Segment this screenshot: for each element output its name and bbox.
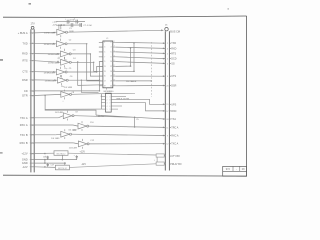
svg-text:CD: CD bbox=[24, 89, 28, 93]
svg-text:3: 3 bbox=[104, 47, 105, 49]
wire J1 row 134.8 to gate U13 bbox=[34, 134, 56, 136]
ic U1 right pin 4 stub bbox=[113, 46, 116, 48]
ic U1 right pin 10 stub bbox=[113, 61, 116, 63]
wire IC pin row 66.4 to tie bbox=[116, 65, 131, 67]
svg-text:13: 13 bbox=[104, 71, 106, 73]
svg-text:17: 17 bbox=[32, 118, 34, 120]
wire J1 row 53.6 to gate U4 bbox=[34, 53, 60, 55]
J1 pin g stub bbox=[30, 159, 34, 161]
wire GND row 1 bbox=[34, 159, 77, 161]
svg-text:MC78L12: MC78L12 bbox=[57, 153, 67, 155]
P2 pin 2 stub bbox=[169, 42, 171, 44]
capacitor C17 at VR2 input bbox=[47, 163, 49, 167]
P2 pin 15 stub bbox=[169, 103, 171, 105]
svg-text:8: 8 bbox=[111, 56, 112, 58]
fold mark left lower bbox=[0, 152, 3, 153]
svg-text:17V: 17V bbox=[30, 22, 35, 25]
ic U2 right pin 3 wire to P2 row 110.9 bbox=[111, 103, 165, 111]
svg-text:DTR: DTR bbox=[22, 94, 27, 98]
svg-text:TXC B: TXC B bbox=[20, 133, 28, 137]
wire gate U13 output bbox=[72, 134, 166, 135]
junction dots on -12V rail bbox=[61, 24, 63, 26]
svg-text:21: 21 bbox=[32, 135, 34, 137]
J1 pin g stub bbox=[30, 166, 34, 168]
svg-text:1/4 1489: 1/4 1489 bbox=[51, 138, 60, 140]
wire branch x81.4 stub bbox=[81, 80, 98, 92]
wire IC pin row 80.9 to cable boundary bbox=[116, 80, 151, 82]
svg-text:3: 3 bbox=[167, 48, 168, 50]
P2 pin 6 stub bbox=[169, 62, 171, 64]
wire gate U7 output to IC pin y61.6 bbox=[68, 62, 103, 81]
J1 pin 17 stub bbox=[30, 117, 34, 119]
gate U4 1/4 MC1489 bbox=[61, 51, 70, 57]
wire VR1 ground leg bbox=[61, 155, 63, 159]
gate U7 1/4 MC1489 bbox=[58, 77, 67, 83]
wire gate U8 output continuation bbox=[101, 93, 135, 95]
ic U2 right pin 5 stub bbox=[111, 108, 118, 110]
svg-text:DSR: DSR bbox=[171, 85, 176, 88]
svg-text:DCD: DCD bbox=[171, 58, 176, 61]
J1 pin 23 stub bbox=[30, 142, 34, 144]
svg-text:1: 1 bbox=[32, 33, 33, 35]
long wire U2 region to P2 row 119 bbox=[96, 115, 165, 119]
svg-text:+ BUS A: + BUS A bbox=[18, 31, 28, 35]
cable boundary dashed line bbox=[150, 42, 152, 97]
P2 pin 8 stub bbox=[169, 75, 171, 77]
wire J1 row 79.9 to gate U7 bbox=[34, 79, 57, 81]
svg-text:TXA: TXA bbox=[171, 118, 176, 121]
svg-text:C7 4.7uF: C7 4.7uF bbox=[83, 25, 92, 27]
wire J1 row 43.3 to gate U3 bbox=[34, 42, 56, 45]
svg-text:2: 2 bbox=[167, 43, 168, 45]
svg-text:1/4 MC1489: 1/4 MC1489 bbox=[44, 72, 56, 74]
wire VR2 ground leg bbox=[64, 163, 66, 165]
svg-text:RTS: RTS bbox=[171, 52, 176, 55]
svg-text:30p: 30p bbox=[64, 68, 67, 70]
svg-text:4: 4 bbox=[114, 46, 115, 48]
svg-text:5: 5 bbox=[167, 59, 168, 61]
voltage regulator VR1 body bbox=[54, 151, 68, 156]
wire IC pin row 71.3 to tie bbox=[116, 70, 134, 72]
ic U2 left pin 3 stub bbox=[101, 102, 105, 104]
svg-text:18: 18 bbox=[110, 81, 112, 83]
svg-text:15: 15 bbox=[32, 95, 34, 97]
svg-text:14: 14 bbox=[110, 71, 112, 73]
svg-text:5: 5 bbox=[107, 109, 108, 111]
svg-text:7: 7 bbox=[109, 103, 110, 105]
svg-text:C16: C16 bbox=[43, 156, 46, 158]
svg-text:8: 8 bbox=[114, 55, 115, 57]
ic U1 body bbox=[103, 41, 113, 88]
P2 pin 4 stub bbox=[169, 52, 171, 54]
svg-text:1/4 1488: 1/4 1488 bbox=[55, 112, 64, 114]
svg-text:RTS: RTS bbox=[22, 59, 27, 63]
svg-text:RXC A: RXC A bbox=[171, 135, 179, 138]
svg-text:CTS: CTS bbox=[171, 75, 176, 78]
gate U6 1/4 MC1489 bbox=[56, 69, 65, 75]
svg-text:2: 2 bbox=[107, 99, 108, 101]
svg-text:RXD: RXD bbox=[171, 110, 176, 113]
svg-text:12: 12 bbox=[113, 65, 115, 67]
svg-text:2: 2 bbox=[111, 42, 112, 44]
svg-text:6: 6 bbox=[114, 50, 115, 52]
wire stub IC pin y51.9 bbox=[99, 51, 103, 53]
gate U13 1/4 1489 bbox=[61, 131, 70, 137]
P2 pin 11 stub bbox=[169, 126, 171, 128]
svg-text:1: 1 bbox=[107, 96, 108, 98]
J1 pin 13 stub bbox=[30, 90, 34, 92]
svg-text:TXD: TXD bbox=[22, 41, 27, 45]
wire IC pin row 85.8 to P2 DSR bbox=[116, 85, 165, 87]
svg-text:24: 24 bbox=[166, 119, 168, 121]
wire IC pin row 76.1 to P2 CTS bbox=[116, 75, 165, 77]
wire CD row to ladder bbox=[34, 90, 99, 92]
wire J1 row 142.9 to gate U14 bbox=[34, 142, 73, 144]
connector P2 top pin circle BUS CM bbox=[165, 28, 168, 31]
svg-text:1/4 MC1489: 1/4 MC1489 bbox=[44, 44, 56, 46]
ic U1 left pin 5 stub bbox=[99, 51, 103, 53]
ic U1 bottom stub bbox=[106, 88, 108, 90]
wire ladder x99.5 extension to CD row bbox=[99, 80, 101, 91]
svg-text:5: 5 bbox=[109, 109, 110, 111]
ic U1 left pin 15 stub bbox=[99, 75, 103, 77]
wire VR1 out +12V to P2 box bbox=[68, 153, 156, 155]
P2 pin 5 stub bbox=[169, 58, 171, 60]
svg-text:GND: GND bbox=[22, 161, 28, 165]
gate U11 power stubs bbox=[66, 111, 68, 113]
wire -12V in to VR2 bbox=[34, 166, 55, 169]
wire vertical tie x134 bbox=[133, 43, 135, 71]
svg-text:RXD: RXD bbox=[22, 52, 28, 56]
fold mark left upper bbox=[0, 59, 3, 60]
title block cell divider 1 bbox=[232, 166, 234, 171]
registration mark top bbox=[29, 3, 32, 5]
wire gate U11 output bbox=[74, 116, 135, 118]
ic U1 right pin 12 stub bbox=[113, 65, 116, 67]
capacitor C6 plates bbox=[66, 20, 68, 24]
svg-text:6: 6 bbox=[109, 106, 110, 108]
ic U2 left pin 1 stub bbox=[101, 95, 105, 97]
wire IC pin row 47.1 to P2 row 48.4 bbox=[116, 47, 165, 48]
svg-text:1/4 1489: 1/4 1489 bbox=[64, 87, 73, 89]
svg-text:1/4 1489: 1/4 1489 bbox=[69, 148, 78, 150]
wire IC pin row 42.3 to P2 row 43.2 bbox=[116, 41, 165, 44]
svg-text:9: 9 bbox=[167, 135, 168, 137]
wire J1 row 71.7 to gate U6 bbox=[34, 71, 56, 73]
wire gate U8 output to U2 bbox=[72, 93, 102, 96]
svg-text:RXD: RXD bbox=[171, 47, 176, 50]
svg-text:12: 12 bbox=[166, 144, 168, 146]
wire stub IC pin y42.3 bbox=[99, 41, 103, 43]
svg-text:TXD: TXD bbox=[171, 42, 176, 45]
gate U14 1/4 1489 bbox=[78, 141, 87, 147]
wire gate U2 stub to -12V rail bbox=[60, 25, 62, 29]
svg-text:6: 6 bbox=[111, 52, 112, 54]
svg-text:3: 3 bbox=[32, 43, 33, 45]
svg-text:972: 972 bbox=[226, 168, 231, 171]
svg-text:TXC A: TXC A bbox=[20, 116, 28, 120]
P2 pin 9 stub bbox=[169, 135, 171, 137]
border frame top edge bbox=[3, 16, 247, 18]
P2 pin 17 stub bbox=[169, 110, 171, 112]
svg-text:1/4 MC1489: 1/4 MC1489 bbox=[45, 81, 57, 83]
svg-text:MC79L12: MC79L12 bbox=[58, 168, 68, 170]
ic U1 right pin 2 stub bbox=[113, 41, 116, 43]
ic U2 left tie bar bbox=[100, 96, 102, 109]
svg-text:18: 18 bbox=[113, 79, 115, 81]
connector J1 body bbox=[30, 29, 32, 172]
svg-text:2: 2 bbox=[114, 41, 115, 43]
svg-text:RXC A: RXC A bbox=[20, 123, 28, 127]
border frame bottom edge bbox=[3, 175, 247, 176]
J1 pin 3 stub bbox=[30, 42, 34, 44]
svg-text:16: 16 bbox=[110, 76, 112, 78]
svg-text:1: 1 bbox=[104, 42, 105, 44]
svg-text:8: 8 bbox=[109, 99, 110, 101]
capacitor C18 at +12V output bbox=[76, 155, 78, 159]
svg-text:-12V: -12V bbox=[81, 164, 86, 166]
svg-text:10: 10 bbox=[110, 61, 112, 63]
svg-text:LVTY BO: LVTY BO bbox=[170, 156, 180, 158]
J1 pin 19 stub bbox=[30, 124, 34, 126]
capacitor C16 at VR1 input bbox=[47, 156, 49, 160]
svg-text:7: 7 bbox=[104, 56, 105, 58]
wire tie between P2 power pin boxes bbox=[156, 157, 158, 162]
ic U1 left pin 9 stub bbox=[99, 61, 103, 63]
svg-text:SG: SG bbox=[171, 62, 175, 65]
svg-text:5: 5 bbox=[104, 52, 105, 54]
svg-text:MALE 25 PIN: MALE 25 PIN bbox=[117, 97, 130, 100]
svg-text:DSR: DSR bbox=[22, 78, 28, 82]
ic U1 right pin 14 stub bbox=[113, 70, 116, 72]
svg-text:PRLAY BO: PRLAY BO bbox=[170, 163, 181, 166]
wire +12V in to VR1 bbox=[34, 152, 54, 154]
svg-text:9: 9 bbox=[32, 72, 33, 74]
ic U1 left pin 19 stub bbox=[99, 85, 103, 87]
ic U1 left pin 11 stub bbox=[99, 65, 103, 67]
svg-text:10: 10 bbox=[113, 60, 115, 62]
ic U2 right pin 2 wire to P2 row 104.3 bbox=[111, 99, 165, 104]
gate U5 power stubs bbox=[64, 57, 66, 59]
svg-text:1/4 MC1489: 1/4 MC1489 bbox=[44, 33, 56, 35]
svg-text:20: 20 bbox=[110, 85, 112, 87]
wire stub IC pin y47.1 bbox=[99, 46, 103, 48]
ic U2 left pin 2 stub bbox=[101, 98, 105, 100]
svg-text:RXC B: RXC B bbox=[20, 141, 28, 145]
connector J1 top pin circle bbox=[31, 26, 34, 29]
svg-text:15: 15 bbox=[166, 104, 168, 106]
svg-text:C17: C17 bbox=[51, 164, 54, 166]
svg-text:CTS: CTS bbox=[22, 70, 27, 74]
svg-text:TXC A: TXC A bbox=[171, 143, 178, 146]
svg-text:1/4 MC1489: 1/4 MC1489 bbox=[48, 54, 60, 56]
svg-text:19: 19 bbox=[32, 125, 34, 127]
wire J1 row DTR to gate U8 bbox=[34, 94, 61, 95]
gate U6 power stubs bbox=[59, 67, 61, 69]
svg-text:GND: GND bbox=[22, 158, 28, 162]
J1 pin 11 stub bbox=[30, 79, 34, 81]
svg-text:UPS: UPS bbox=[171, 103, 176, 106]
ic U2 right pin 1 wire bbox=[111, 95, 126, 97]
svg-text:20: 20 bbox=[166, 85, 168, 87]
svg-text:3: 3 bbox=[107, 103, 108, 105]
capacitor C9 plates bbox=[79, 23, 81, 27]
ic U1 right pin 6 stub bbox=[113, 51, 116, 53]
svg-text:12: 12 bbox=[110, 66, 112, 68]
J1 pin 15 stub bbox=[30, 95, 34, 97]
gate U5 1/4 MC1489 bbox=[61, 59, 70, 65]
gate U4 power stubs bbox=[64, 49, 66, 51]
capacitor C8 plates bbox=[70, 23, 72, 27]
svg-text:5: 5 bbox=[32, 54, 33, 56]
wire IC pin row 56.8 to P2 row 58.6 bbox=[116, 57, 165, 59]
wire gate U12 output bbox=[89, 126, 166, 127]
svg-text:+12V: +12V bbox=[21, 152, 27, 156]
svg-text:TRC A: TRC A bbox=[171, 126, 178, 129]
svg-text:23: 23 bbox=[32, 143, 34, 145]
P2 pin 3 stub bbox=[169, 47, 171, 49]
ic U1 left pin 3 stub bbox=[99, 46, 103, 48]
border frame right edge bbox=[246, 16, 248, 176]
svg-text:13: 13 bbox=[32, 91, 34, 93]
ic U1 left pin 13 stub bbox=[99, 70, 103, 72]
wire gate U4 output to IC pin y76.1 bbox=[71, 54, 103, 76]
svg-text:20: 20 bbox=[113, 84, 115, 86]
svg-text:25: 25 bbox=[32, 153, 34, 155]
gate U8 power stubs bbox=[64, 90, 66, 92]
svg-text:RS CABLE: RS CABLE bbox=[126, 80, 137, 83]
gate U2 power stubs bbox=[60, 27, 62, 29]
J1 pin 25 stub bbox=[30, 153, 34, 155]
P2 pin 24 stub bbox=[169, 118, 171, 120]
wire J1 row 60.7 to gate U5 bbox=[34, 61, 60, 63]
svg-text:4: 4 bbox=[167, 53, 168, 55]
wire vertical tie x130.5 bbox=[130, 48, 132, 66]
net +12V rail top bbox=[56, 21, 85, 23]
svg-text:+12V: +12V bbox=[80, 151, 86, 153]
gate U3 1/4 MC1489 bbox=[56, 41, 65, 47]
svg-text:BUS CM: BUS CM bbox=[170, 30, 180, 33]
J1 pin 21 stub bbox=[30, 134, 34, 136]
svg-text:4: 4 bbox=[107, 106, 108, 108]
ic U2 body bbox=[106, 93, 112, 112]
svg-text:19: 19 bbox=[104, 85, 106, 87]
wire IC pin row 61.6 to P2 row 63.4 bbox=[116, 62, 165, 64]
net -12V rail top bbox=[56, 24, 82, 26]
svg-text:7: 7 bbox=[32, 61, 33, 63]
wire gate U14 output bbox=[89, 143, 165, 145]
svg-text:8: 8 bbox=[167, 76, 168, 78]
P2 pin 12 stub bbox=[169, 143, 171, 145]
svg-text:MC68B50: MC68B50 bbox=[104, 91, 115, 93]
wire J1 row 125.0 to gate U12 bbox=[34, 124, 73, 126]
wire GND tie vertical bbox=[44, 160, 46, 164]
ic U1 right pin 16 stub bbox=[113, 75, 116, 77]
svg-text:14: 14 bbox=[113, 70, 115, 72]
ic U1 left pin 1 stub bbox=[99, 41, 103, 43]
wire GND row 2 bbox=[34, 162, 66, 164]
title block box bbox=[223, 166, 247, 176]
P2 pin box -12V BO bbox=[156, 162, 164, 165]
gate U12 power stubs bbox=[81, 121, 83, 123]
svg-text:4: 4 bbox=[111, 47, 112, 49]
ic U2 left pin 5 stub bbox=[101, 108, 105, 110]
gate U13 power stubs bbox=[64, 129, 66, 131]
ic U1 right pin 20 stub bbox=[113, 85, 116, 87]
wire VR2 out -12V to P2 box bbox=[69, 164, 156, 168]
wire stub IC pin y56.8 bbox=[99, 56, 103, 58]
J1 pin g stub bbox=[30, 162, 34, 164]
ic U2 left pin 4 stub bbox=[101, 105, 105, 107]
wire vertical feed from DTR region bbox=[45, 96, 96, 116]
svg-text:16: 16 bbox=[113, 75, 115, 77]
J1 pin 1 stub bbox=[30, 32, 34, 34]
svg-text:11: 11 bbox=[166, 127, 168, 129]
wire J1 row 32.9 to gate U2 bbox=[34, 31, 57, 34]
svg-text:17: 17 bbox=[166, 111, 168, 113]
svg-text:17: 17 bbox=[104, 81, 106, 83]
title block cell divider 2 bbox=[239, 166, 241, 171]
gate U3 power stubs bbox=[59, 39, 61, 41]
capacitor C7 plates bbox=[75, 20, 77, 24]
title block divider bbox=[223, 170, 247, 172]
wire gate U6 output to IC pin y66.4 bbox=[67, 66, 103, 72]
wire J1 row 117.8 to gate U11 bbox=[34, 117, 58, 119]
ic U1 right pin 18 stub bbox=[113, 80, 116, 82]
wire gate U5 output to IC pin y71.3 bbox=[71, 62, 103, 71]
P2 pin box +12V BO bbox=[156, 154, 164, 157]
gate U12 1/4 1488 bbox=[78, 123, 87, 129]
J1 pin 7 stub bbox=[30, 60, 34, 62]
P2 pin 20 stub bbox=[169, 85, 171, 87]
ic U2 right pin 4 stub bbox=[111, 105, 122, 107]
ic U1 right pin 8 stub bbox=[113, 56, 116, 58]
svg-text:11: 11 bbox=[104, 66, 106, 68]
wire U2 feed down to tie bar bbox=[100, 94, 102, 97]
gate U14 power stubs bbox=[81, 139, 83, 141]
wire gate U3 output to IC pin y80.9 bbox=[67, 44, 103, 81]
svg-text:-12V: -12V bbox=[22, 165, 28, 169]
J1 pin 5 stub bbox=[30, 53, 34, 55]
svg-text:15: 15 bbox=[104, 76, 106, 78]
svg-text:9: 9 bbox=[104, 61, 105, 63]
wire branch x77.7 to IC pin y83.8 bbox=[78, 62, 103, 85]
gate U2 1/4 MC1489 bbox=[57, 29, 66, 35]
svg-text:9: 9 bbox=[109, 96, 110, 98]
J1 pin 9 stub bbox=[30, 71, 34, 73]
svg-text:6: 6 bbox=[167, 63, 168, 65]
voltage regulator VR2 body bbox=[55, 165, 69, 170]
net +BUS A wire gate U2 output to P2 BUS CM bbox=[68, 30, 164, 32]
speck top right bbox=[228, 8, 229, 9]
wire vertical tie net25 bbox=[134, 117, 136, 127]
ic U1 left pin 7 stub bbox=[99, 56, 103, 58]
connector P2 body bbox=[164, 31, 166, 170]
wire IC pin row 51.9 to P2 row 53.4 bbox=[116, 52, 165, 54]
svg-text:11: 11 bbox=[32, 80, 34, 82]
gate U7 power stubs bbox=[61, 75, 63, 77]
gate U8 1/4 1489 bbox=[61, 92, 70, 98]
gate U11 1/4 1488 bbox=[63, 113, 72, 119]
svg-text:4.7uF: 4.7uF bbox=[70, 20, 76, 22]
ic U1 left pin 17 stub bbox=[99, 80, 103, 82]
svg-text:1/4 MC1489: 1/4 MC1489 bbox=[48, 63, 60, 65]
wire gate U2 stub 2 to -12V rail bbox=[58, 25, 60, 29]
